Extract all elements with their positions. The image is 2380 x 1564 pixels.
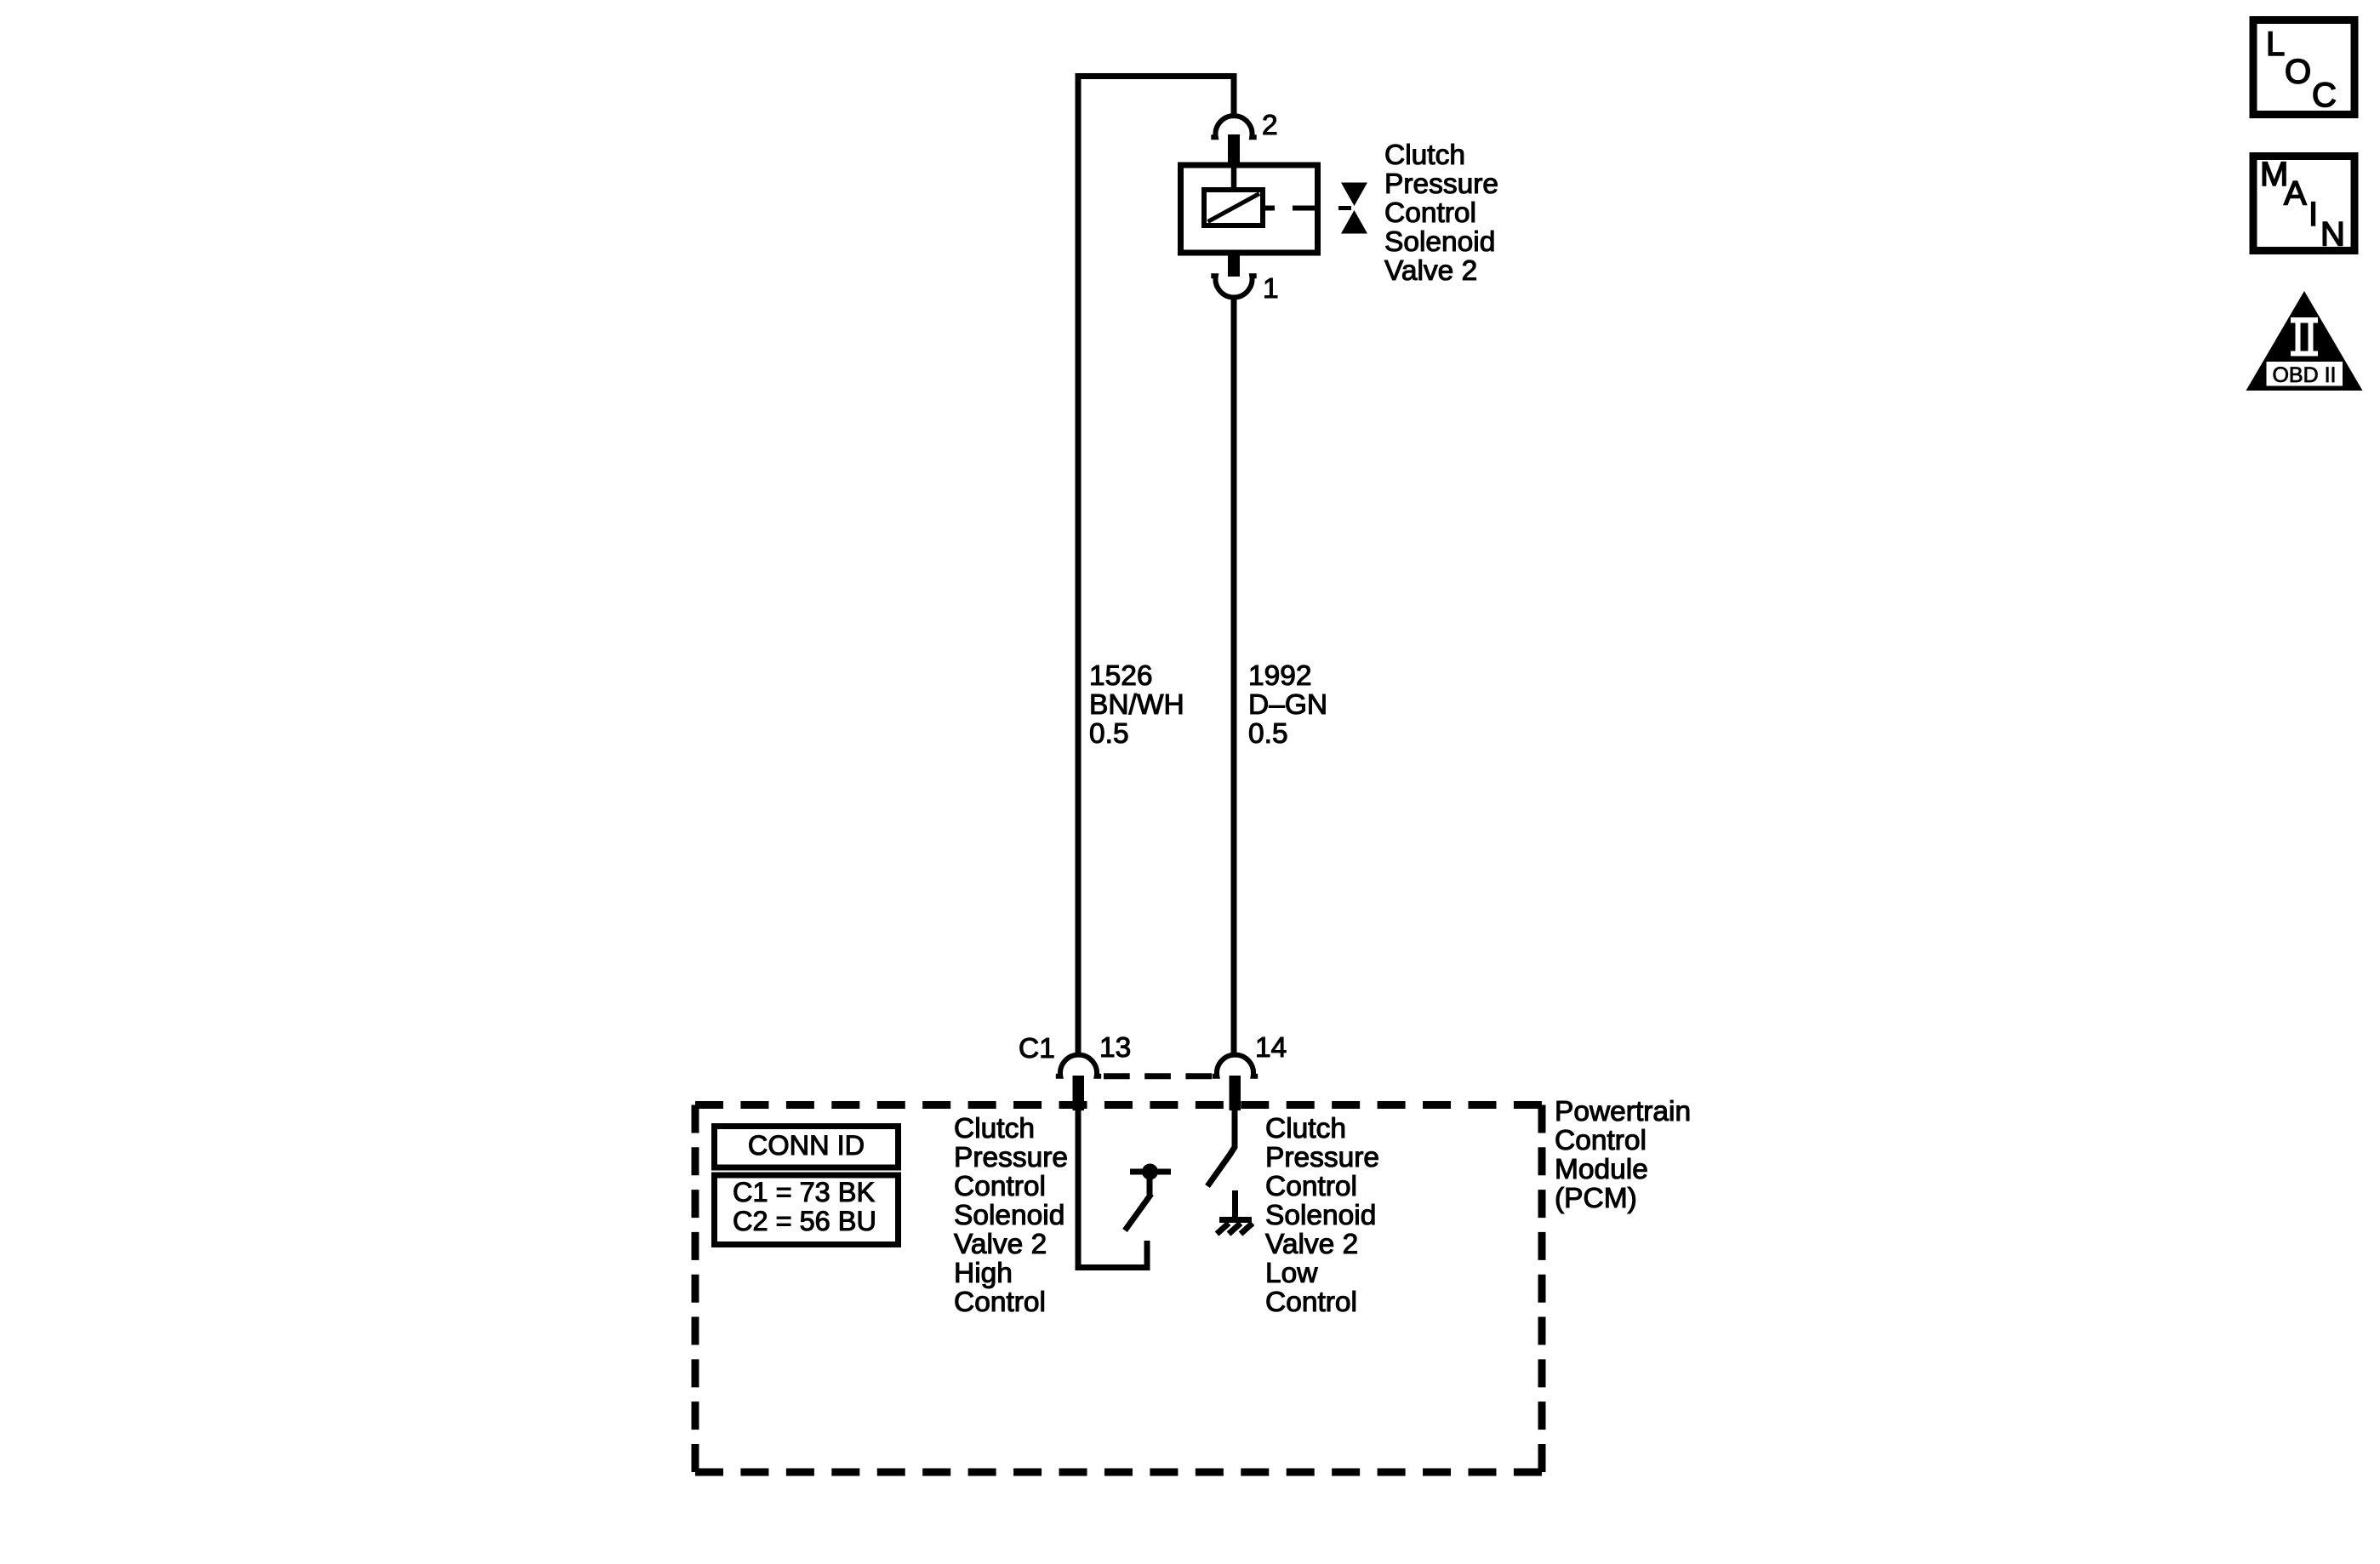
wire: pin 13 internal lead down and right to driver contact [1078,1110,1147,1268]
OBD II pillar glyph left column [2296,323,2301,351]
svg-text:BN/WH: BN/WH [1089,689,1184,721]
wire: top feed run from PCM pin 13 up and across to solenoid pin 2 [1078,77,1234,1056]
net label: Clutch Pressure Control Solenoid Valve 2 High Control [954,1113,1068,1318]
terminal bar pin 1 [1228,251,1240,277]
svg-text:Clutch: Clutch [1384,140,1465,171]
svg-text:Clutch: Clutch [1265,1113,1346,1144]
connector arc pin 2 (solenoid side) [1211,116,1256,137]
LOC letters [2266,26,2337,114]
svg-text:C1: C1 [1019,1033,1055,1065]
terminal bar pin 2 [1228,134,1240,167]
valve symbol stem [1338,206,1351,210]
high-side driver junction dot [1142,1164,1158,1180]
svg-text:C2 = 56 BU: C2 = 56 BU [733,1206,876,1236]
svg-text:0.5: 0.5 [1248,718,1288,750]
OBD II pillar glyph base bar [2291,351,2318,357]
svg-text:D–GN: D–GN [1248,689,1327,721]
svg-text:Valve 2: Valve 2 [1265,1229,1358,1260]
high-side driver switch blade [1125,1194,1151,1230]
solenoid coil element [1204,190,1263,225]
OBD II pillar glyph top bar [2291,317,2318,323]
MAIN legend box [2253,157,2354,251]
MAIN letters [2260,156,2345,254]
svg-text:C: C [2312,77,2337,114]
svg-text:Control: Control [954,1171,1046,1202]
svg-text:L: L [2266,26,2285,63]
terminal bar pin 14 [1230,1076,1241,1110]
svg-text:O: O [2285,54,2311,91]
svg-text:13: 13 [1099,1032,1131,1064]
svg-text:Pressure: Pressure [954,1142,1068,1173]
svg-text:I: I [2309,196,2318,233]
wire label circuit 1526 BN/WH 0.5 [1089,660,1184,750]
module label: Powertrain Control Module (PCM) [1555,1096,1691,1214]
CONN ID table outer box top row [715,1127,899,1168]
high-side driver bus bar [1130,1169,1171,1175]
svg-text:Powertrain: Powertrain [1555,1096,1691,1127]
valve symbol upper triangle [1341,183,1367,207]
ground stem inside PCM [1232,1190,1238,1220]
svg-text:Control: Control [1384,197,1476,229]
svg-text:A: A [2284,175,2307,213]
PCM module dashed outline box [695,1101,1542,1109]
svg-text:(PCM): (PCM) [1555,1183,1637,1214]
svg-text:Module: Module [1555,1154,1648,1185]
wire: pin 14 internal lead with low-side driver switch blade [1207,1110,1235,1186]
wire: internal lead pin2 to coil [1231,167,1237,191]
coil diagonal stroke [1208,194,1260,222]
svg-text:C1 = 73 BK: C1 = 73 BK [733,1177,875,1207]
svg-text:Control: Control [954,1287,1046,1318]
OBD II triangle symbol [2246,291,2363,391]
connector arc pin 14 [1213,1055,1258,1076]
high-side driver pivot stem [1147,1175,1153,1195]
solenoid S1 outline box [1181,165,1318,253]
svg-text:Low: Low [1265,1258,1318,1289]
svg-text:1526: 1526 [1089,660,1153,692]
svg-text:Control: Control [1265,1171,1357,1202]
svg-text:Control: Control [1265,1287,1357,1318]
svg-text:OBD II: OBD II [2272,363,2336,387]
svg-text:Solenoid: Solenoid [1265,1200,1376,1231]
chassis ground bar [1219,1217,1252,1223]
svg-text:Clutch: Clutch [954,1113,1035,1144]
svg-text:Valve 2: Valve 2 [954,1229,1047,1260]
component label: Clutch Pressure Control Solenoid Valve 2 [1384,140,1498,287]
OBD II pillar glyph right column [2309,323,2314,351]
svg-text:0.5: 0.5 [1089,718,1129,750]
svg-text:Pressure: Pressure [1384,168,1498,200]
svg-text:14: 14 [1255,1032,1287,1064]
svg-text:Solenoid: Solenoid [1384,226,1495,258]
wire: coil output dash segments [1263,206,1317,211]
wire: solenoid pin 1 down to PCM pin 14 [1231,298,1237,1055]
svg-text:Control: Control [1555,1125,1647,1156]
svg-text:1992: 1992 [1248,660,1312,692]
valve symbol lower triangle [1341,210,1367,234]
dashed connector C1 face line between pins [1104,1073,1213,1079]
svg-text:N: N [2320,216,2345,254]
svg-text:CONN ID: CONN ID [748,1130,865,1161]
wire label circuit 1992 D-GN 0.5 [1248,660,1327,750]
LOC legend box [2253,20,2354,115]
svg-text:Pressure: Pressure [1265,1142,1379,1173]
CONN ID table bottom row box [715,1175,899,1245]
terminal bar pin 13 [1073,1076,1085,1110]
chassis ground hatch strokes [1217,1224,1253,1235]
OBD II white label plate [2267,362,2343,386]
svg-text:2: 2 [1262,110,1278,141]
svg-text:1: 1 [1263,273,1279,305]
connector arc pin 13 [1056,1055,1101,1076]
svg-text:Valve 2: Valve 2 [1384,255,1477,287]
svg-text:Solenoid: Solenoid [954,1200,1064,1231]
net label: Clutch Pressure Control Solenoid Valve 2 Low Control [1265,1113,1379,1318]
svg-text:High: High [954,1258,1013,1289]
connector arc pin 1 (solenoid side) [1211,276,1256,297]
